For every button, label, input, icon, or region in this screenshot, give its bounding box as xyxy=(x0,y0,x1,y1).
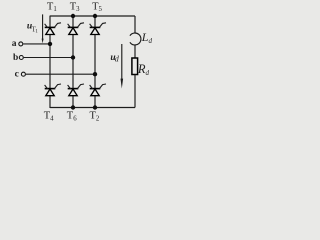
thyristor T5 xyxy=(90,23,106,35)
wire branch 2 upper xyxy=(72,16,74,27)
wire branch 2 middle xyxy=(72,35,74,89)
svg-text:T1: T1 xyxy=(47,1,57,13)
wire branch 1 upper xyxy=(49,16,51,27)
node on top rail branch 2 xyxy=(71,14,75,18)
wire branch 1 lower xyxy=(49,95,51,108)
svg-text:Ld: Ld xyxy=(141,30,153,45)
wire load branch top xyxy=(134,16,136,33)
wire top rail xyxy=(50,15,135,17)
thyristor T2 xyxy=(90,84,106,96)
svg-text:Rd: Rd xyxy=(137,62,150,77)
node phase c junction xyxy=(93,72,97,76)
wire phase c xyxy=(26,73,95,75)
wire load branch bottom xyxy=(134,75,136,108)
wire load branch mid xyxy=(134,45,136,58)
thyristor T4 xyxy=(45,84,61,96)
thyristor T3 xyxy=(68,23,84,35)
terminal b xyxy=(19,56,23,60)
wire branch 3 lower xyxy=(94,95,96,108)
svg-text:T5: T5 xyxy=(92,1,102,13)
thyristor T1 xyxy=(45,23,61,35)
node phase a junction xyxy=(48,42,52,46)
wire phase a xyxy=(23,43,50,45)
svg-text:c: c xyxy=(15,69,19,79)
svg-text:T2: T2 xyxy=(90,111,100,123)
wire branch 3 middle xyxy=(94,35,96,89)
svg-text:b: b xyxy=(13,53,18,63)
resistor Rd xyxy=(132,58,138,75)
terminal a xyxy=(19,42,23,46)
svg-text:1: 1 xyxy=(35,29,38,35)
svg-text:a: a xyxy=(12,39,17,49)
voltage arrow ud xyxy=(121,44,123,80)
thyristor T6 xyxy=(68,84,84,96)
svg-text:d: d xyxy=(115,54,120,63)
voltage arrow uT1 xyxy=(42,14,44,40)
node phase b junction xyxy=(71,55,75,59)
node bottom rail branch 3 xyxy=(93,105,97,109)
svg-text:T4: T4 xyxy=(44,111,54,123)
wire bottom rail xyxy=(50,107,135,109)
svg-text:T3: T3 xyxy=(70,1,80,13)
node on top rail branch 3 xyxy=(93,14,97,18)
svg-text:T6: T6 xyxy=(67,111,77,123)
wire phase b xyxy=(24,57,73,59)
terminal c xyxy=(21,72,25,76)
node bottom rail branch 2 xyxy=(71,105,75,109)
wire branch 3 upper xyxy=(94,16,96,27)
wire branch 1 middle xyxy=(49,35,51,89)
wire branch 2 lower xyxy=(72,95,74,108)
inductor Ld loop xyxy=(130,33,141,45)
